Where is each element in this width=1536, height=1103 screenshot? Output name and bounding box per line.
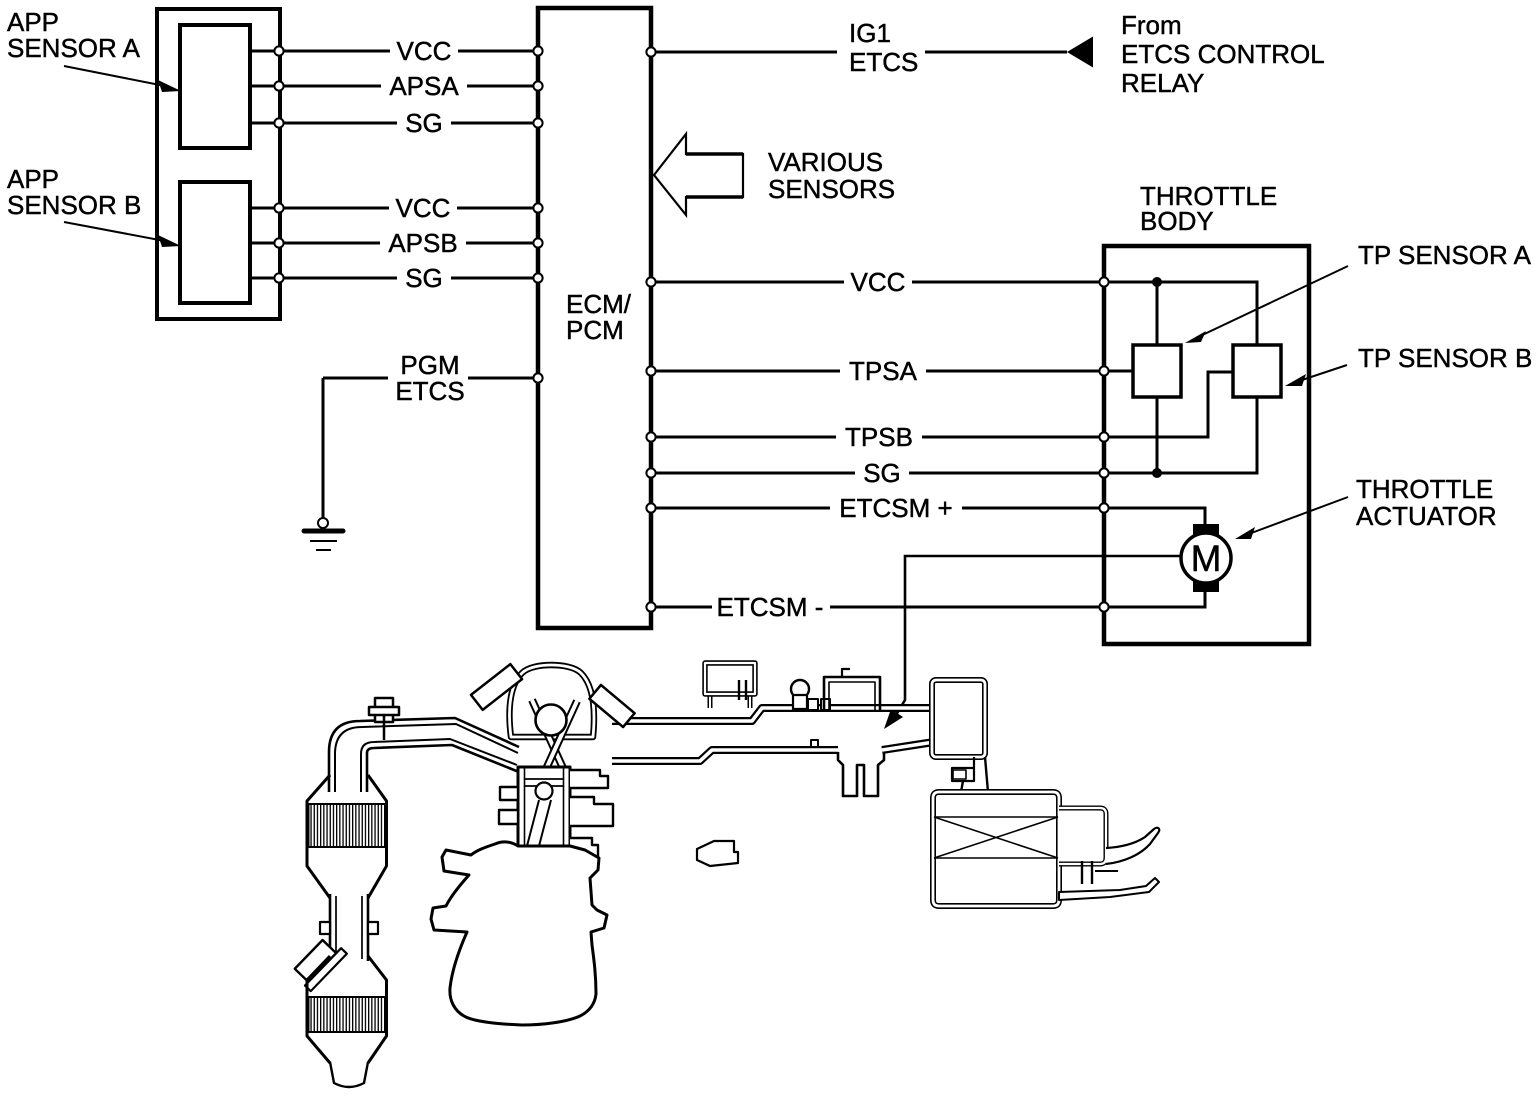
wire TPSB inside <box>1104 372 1233 437</box>
lower catalytic converter outline <box>307 956 330 1063</box>
APP sensor B inner box <box>180 182 250 303</box>
wire sensor A feed <box>1156 282 1159 473</box>
duct down to air cleaner <box>961 781 963 792</box>
side extension box <box>1059 808 1106 864</box>
TP sensor B box <box>1233 345 1281 397</box>
wire SG (sensor A) <box>250 122 538 125</box>
wire VCC (sensor A) <box>250 50 538 53</box>
svg-text:SG: SG <box>405 263 443 293</box>
svg-text:VCC: VCC <box>397 36 452 66</box>
svg-text:M: M <box>1191 538 1222 579</box>
ground <box>318 518 328 528</box>
svg-text:TPSA: TPSA <box>849 356 918 386</box>
wire VCC (sensor B) <box>250 207 538 210</box>
cylinder block <box>518 767 570 846</box>
wire ETCSM - inside <box>1104 590 1205 607</box>
terminals on throttle body left edge <box>1099 277 1108 611</box>
oxygen sensor stub on lower pipe <box>291 935 347 991</box>
leader arrow to sensor B <box>64 222 170 242</box>
svg-text:PCM: PCM <box>566 315 624 345</box>
engine cylinder head dome <box>509 665 593 737</box>
svg-text:APSB: APSB <box>388 228 457 258</box>
leader arrow to sensor A <box>64 66 170 87</box>
camshaft circle <box>536 705 567 736</box>
bracket below pipe <box>838 752 884 796</box>
svg-text:VCC: VCC <box>851 267 906 297</box>
svg-text:VARIOUS: VARIOUS <box>768 147 883 177</box>
svg-text:ETCS CONTROL: ETCS CONTROL <box>1121 39 1325 69</box>
catalytic converter bodies (fill) <box>307 775 387 899</box>
svg-text:SENSOR A: SENSOR A <box>7 33 141 63</box>
svg-text:TP SENSOR A: TP SENSOR A <box>1358 240 1532 270</box>
throttle actuator motor <box>1193 524 1219 539</box>
various sensors block arrow <box>654 134 743 215</box>
fitting upper right <box>589 685 634 727</box>
piston <box>524 778 564 780</box>
O2 sensor boss on exhaust pipe <box>375 698 393 722</box>
right flange steps <box>570 770 608 788</box>
wire SG inside throttle body <box>1104 397 1257 473</box>
throttle block of intake <box>932 680 985 757</box>
filter element X band <box>934 816 1058 818</box>
spark plug stub upper left <box>471 664 522 710</box>
wire ETCSM - <box>651 606 1104 609</box>
APP sensor A inner box <box>180 25 250 148</box>
terminal circles on APP box edge <box>274 46 283 282</box>
svg-text:ETCS: ETCS <box>849 47 918 77</box>
wire ETCSM + <box>651 507 1104 510</box>
wire VCC inside throttle body <box>1104 282 1257 346</box>
wire TPSA inside <box>1104 370 1133 373</box>
wire TPSB <box>651 436 1104 439</box>
air cleaner housing <box>933 792 1059 906</box>
svg-text:ACTUATOR: ACTUATOR <box>1356 501 1497 531</box>
throttle body box <box>1104 246 1309 644</box>
svg-text:TP SENSOR B: TP SENSOR B <box>1358 343 1532 373</box>
wire IG1 ETCS <box>651 51 1067 54</box>
svg-text:SENSOR B: SENSOR B <box>7 190 141 220</box>
sensor box on pipe top <box>824 677 880 711</box>
wire APSA <box>250 85 538 88</box>
floating bracket <box>697 841 738 866</box>
wire VCC (throttle) <box>651 281 1104 284</box>
motor leader wire from engine <box>893 556 1182 720</box>
svg-text:SG: SG <box>863 458 901 488</box>
ECM/PCM box <box>538 8 651 628</box>
wire TPSA <box>651 370 1104 373</box>
wire to ground <box>322 378 325 520</box>
wire SG (sensor B) <box>250 277 538 280</box>
wire SG (throttle) <box>651 472 1104 475</box>
svg-text:THROTTLE: THROTTLE <box>1356 474 1493 504</box>
inter-converter pipe <box>329 894 332 961</box>
arrowhead to ETCS control relay <box>1067 37 1093 68</box>
svg-text:RELAY: RELAY <box>1121 68 1204 98</box>
svg-text:APSA: APSA <box>389 71 459 101</box>
idle air connector <box>952 757 974 781</box>
intake snorkel <box>1106 828 1159 864</box>
crankcase <box>431 842 607 1025</box>
exhaust pipe walls <box>329 718 519 792</box>
valve stems crossing <box>532 700 568 779</box>
svg-text:SENSORS: SENSORS <box>768 174 895 204</box>
junction dot SG <box>1152 468 1162 478</box>
wire ETCSM + inside <box>1104 508 1205 527</box>
svg-text:TPSB: TPSB <box>845 422 913 452</box>
terminals on ECM right edge <box>646 47 655 611</box>
terminals on ECM left edge <box>533 46 542 382</box>
wire PGM ETCS <box>323 377 538 380</box>
svg-text:IG1: IG1 <box>849 18 891 48</box>
dome fitting on pipe <box>791 680 809 698</box>
resonator box above pipe <box>708 694 713 708</box>
wire APSB <box>250 242 538 245</box>
APP sensor assembly outer box <box>157 9 280 319</box>
upper catalytic converter outline <box>307 775 330 898</box>
svg-text:ETCSM -: ETCSM - <box>717 592 824 622</box>
svg-text:ETCS: ETCS <box>395 376 464 406</box>
svg-text:SG: SG <box>405 108 443 138</box>
TP sensor A box <box>1133 345 1181 397</box>
intake pipe from engine to throttle block <box>612 708 934 721</box>
svg-text:ETCSM +: ETCSM + <box>839 493 952 523</box>
svg-text:VCC: VCC <box>396 193 451 223</box>
junction dot VCC <box>1152 277 1162 287</box>
small tick on pipe bottom <box>811 740 818 748</box>
left stubs on cylinder <box>500 787 518 800</box>
svg-text:From: From <box>1121 10 1182 40</box>
svg-text:BODY: BODY <box>1140 206 1214 236</box>
